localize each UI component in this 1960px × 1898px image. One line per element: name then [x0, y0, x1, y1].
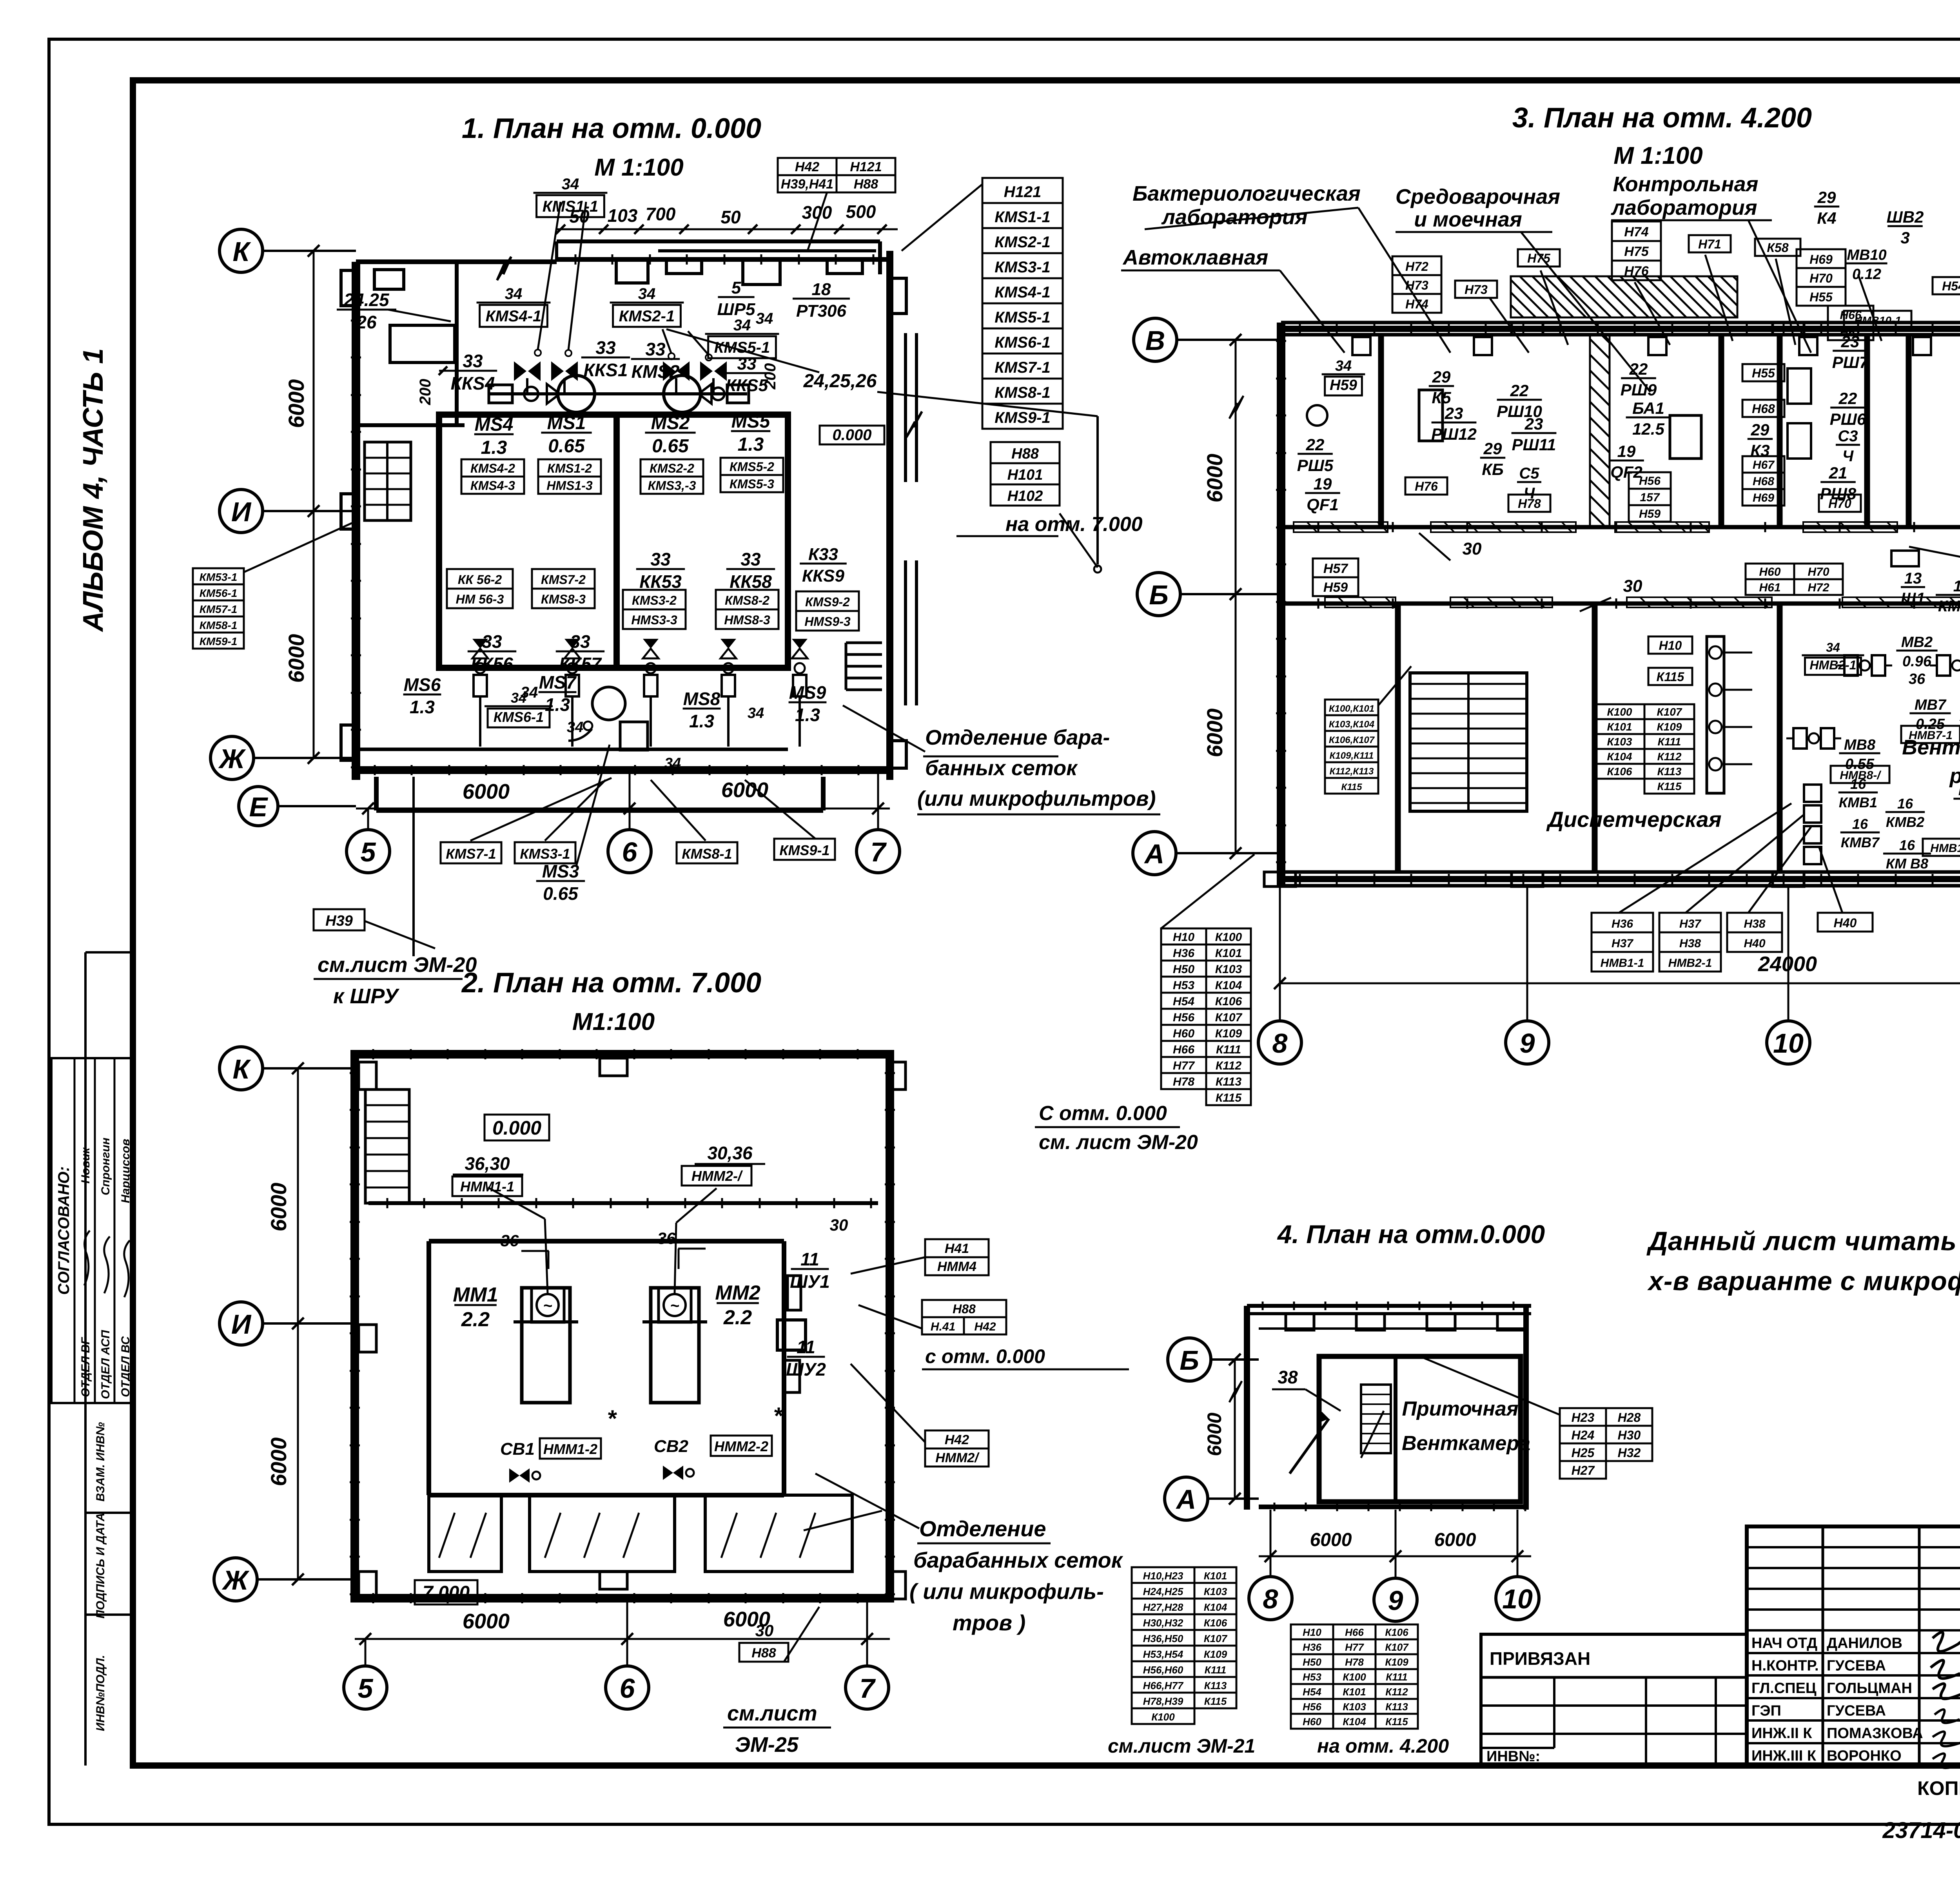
- svg-text:0.12: 0.12: [1852, 266, 1881, 283]
- svg-text:НМ 56-3: НМ 56-3: [456, 592, 504, 606]
- svg-text:К111: К111: [1658, 736, 1681, 748]
- plan1 break mark top: [497, 257, 511, 280]
- svg-text:Н77: Н77: [1173, 1059, 1195, 1072]
- svg-text:МВ10: МВ10: [1847, 247, 1886, 263]
- svg-text:16: 16: [1850, 776, 1866, 792]
- svg-text:Н56: Н56: [1639, 475, 1661, 488]
- svg-text:200: 200: [417, 379, 434, 406]
- svg-text:КМS2-2: КМS2-2: [650, 461, 694, 475]
- plan1 building outer walls: [352, 262, 360, 780]
- svg-text:Новик: Новик: [79, 1147, 92, 1184]
- svg-text:30,36: 30,36: [707, 1143, 753, 1163]
- svg-text:К107: К107: [1657, 706, 1682, 718]
- svg-text:ГЛ.СПЕЦ: ГЛ.СПЕЦ: [1751, 1680, 1817, 1697]
- svg-text:Автоклавная: Автоклавная: [1122, 246, 1269, 269]
- plan4 top wall strip: [1247, 1304, 1531, 1308]
- svg-text:ИНЖ.II К: ИНЖ.II К: [1751, 1725, 1812, 1742]
- svg-text:К115: К115: [1204, 1695, 1227, 1707]
- svg-text:К104: К104: [1607, 750, 1632, 763]
- left stamp column line: [84, 952, 87, 1766]
- plan1 label ShR5: [717, 278, 755, 319]
- svg-text:К109,К111: К109,К111: [1330, 750, 1374, 761]
- svg-text:Н30,Н32: Н30,Н32: [1143, 1617, 1183, 1629]
- svg-text:НММ2/: НММ2/: [935, 1450, 980, 1465]
- svg-text:ИНЖ.III К: ИНЖ.III К: [1751, 1748, 1817, 1764]
- svg-text:2.2: 2.2: [461, 1308, 490, 1331]
- plan2 axis 7: [846, 1666, 889, 1709]
- svg-text:см.лист ЭМ-21: см.лист ЭМ-21: [1108, 1735, 1255, 1757]
- svg-text:6000: 6000: [1202, 454, 1227, 503]
- svg-text:10: 10: [1502, 1584, 1533, 1614]
- plan1 label 33/KMS2: [631, 339, 680, 382]
- svg-text:Данный лист читать совместно с: Данный лист читать совместно с листами Э…: [1646, 1226, 1960, 1256]
- svg-text:34: 34: [638, 285, 656, 303]
- svg-text:Н37: Н37: [1679, 917, 1701, 930]
- svg-text:НММ4: НММ4: [937, 1259, 976, 1274]
- svg-text:29: 29: [1751, 421, 1769, 439]
- svg-text:22: 22: [1629, 360, 1648, 378]
- plan3 room3 labels: [1621, 360, 1657, 399]
- title block frame: [1747, 1526, 1960, 1766]
- svg-text:30: 30: [830, 1216, 848, 1234]
- svg-text:КМS4-3: КМS4-3: [470, 479, 515, 493]
- svg-text:0.000: 0.000: [492, 1117, 541, 1139]
- svg-text:Н66: Н66: [1173, 1043, 1194, 1056]
- svg-text:Н88: Н88: [1011, 446, 1039, 462]
- plan1 label KMS4-1: [477, 285, 551, 327]
- svg-text:34: 34: [664, 755, 681, 772]
- svg-text:К115: К115: [1657, 670, 1685, 684]
- svg-text:Н40: Н40: [1834, 916, 1857, 930]
- svg-text:КМS9-1: КМS9-1: [779, 842, 829, 858]
- svg-text:К107: К107: [1204, 1633, 1228, 1644]
- svg-text:29: 29: [1483, 439, 1502, 458]
- svg-text:9: 9: [1388, 1585, 1403, 1616]
- svg-text:КМS8-2: КМS8-2: [725, 593, 769, 607]
- plan2 level 0.000: [485, 1115, 549, 1140]
- svg-text:КМS1-1: КМS1-1: [995, 208, 1050, 226]
- svg-text:КМВ1: КМВ1: [1839, 794, 1877, 810]
- plan1 note N39: [314, 909, 365, 930]
- svg-text:Спронгин: Спронгин: [99, 1138, 112, 1195]
- plan1 axis 7: [857, 830, 900, 873]
- plan1 machine labels MS4 MS1 MS2 MS5: [474, 414, 514, 458]
- svg-text:НММ2-2: НММ2-2: [714, 1438, 768, 1454]
- svg-text:Н36,Н50: Н36,Н50: [1143, 1633, 1183, 1644]
- plan3 axis 8: [1258, 1021, 1301, 1064]
- svg-text:1.3: 1.3: [481, 437, 507, 458]
- svg-text:6000: 6000: [266, 1438, 291, 1486]
- svg-text:Н39: Н39: [325, 913, 353, 929]
- svg-text:КМS2-1: КМS2-1: [995, 234, 1050, 251]
- plan1 label 33/KKS5: [723, 354, 770, 395]
- svg-text:Н27,Н28: Н27,Н28: [1143, 1601, 1183, 1613]
- plan1 top label table N42/N121: [778, 158, 837, 192]
- svg-text:К112: К112: [1216, 1059, 1242, 1072]
- svg-text:Н56: Н56: [1173, 1011, 1194, 1024]
- svg-text:К103,К104: К103,К104: [1329, 719, 1374, 730]
- svg-text:33: 33: [740, 549, 761, 569]
- svg-text:26: 26: [356, 312, 377, 332]
- svg-text:0.000: 0.000: [832, 426, 871, 444]
- plan1 right label stack: [982, 178, 1063, 429]
- svg-text:МВ1: МВ1: [1958, 782, 1960, 799]
- svg-text:Н57: Н57: [1323, 561, 1348, 576]
- svg-text:2.2: 2.2: [723, 1306, 752, 1329]
- svg-text:200: 200: [762, 363, 779, 390]
- svg-text:К109: К109: [1385, 1656, 1408, 1668]
- svg-text:Н70: Н70: [1809, 271, 1833, 285]
- svg-text:Н77: Н77: [1345, 1641, 1364, 1653]
- svg-text:с отм. 0.000: с отм. 0.000: [925, 1345, 1045, 1367]
- svg-text:Н24,Н25: Н24,Н25: [1143, 1586, 1183, 1597]
- svg-text:23: 23: [1524, 415, 1543, 433]
- plan2 right wall devices: [788, 1276, 801, 1310]
- svg-text:Н55: Н55: [1752, 366, 1775, 380]
- svg-text:Н53: Н53: [1173, 979, 1194, 992]
- svg-text:МS1: МS1: [547, 413, 586, 433]
- svg-text:Н102: Н102: [1007, 488, 1043, 504]
- svg-text:36: 36: [657, 1229, 676, 1247]
- svg-text:0.65: 0.65: [652, 436, 689, 457]
- svg-text:7: 7: [860, 1673, 876, 1704]
- plan3 left dim: [1235, 340, 1237, 853]
- svg-text:КМ59-1: КМ59-1: [200, 635, 238, 647]
- plan2 label N88 N41 N42: [922, 1300, 1006, 1317]
- svg-text:Отделение: Отделение: [919, 1516, 1046, 1541]
- table T2 (below plan2): [1132, 1567, 1194, 1583]
- svg-text:КБ: КБ: [1482, 460, 1504, 479]
- svg-text:ВЗАМ. ИНВ№: ВЗАМ. ИНВ№: [94, 1422, 107, 1502]
- svg-text:КМВ-9: КМВ-9: [1938, 598, 1960, 615]
- svg-text:( или микрофиль-: ( или микрофиль-: [909, 1579, 1104, 1604]
- svg-text:КК58: КК58: [730, 571, 772, 592]
- svg-text:ММ1: ММ1: [453, 1283, 498, 1306]
- svg-text:ИНВ№ПОДЛ.: ИНВ№ПОДЛ.: [94, 1655, 107, 1731]
- plan4 axis 9: [1374, 1578, 1417, 1621]
- svg-text:Н70: Н70: [1828, 497, 1851, 511]
- svg-text:Н54: Н54: [1303, 1686, 1321, 1698]
- plan3 lower band partitions: [1395, 604, 1401, 872]
- svg-text:Н10: Н10: [1173, 931, 1194, 944]
- plan4 break mark: [1229, 1381, 1242, 1402]
- svg-text:Н25: Н25: [1572, 1446, 1595, 1460]
- svg-text:24,25,26: 24,25,26: [803, 371, 877, 392]
- svg-text:Н24: Н24: [1572, 1428, 1595, 1442]
- svg-text:КМS5-2: КМS5-2: [730, 460, 774, 474]
- plan2 pilasters: [359, 1062, 376, 1089]
- svg-text:К109: К109: [1657, 721, 1682, 733]
- svg-text:Н72: Н72: [1405, 259, 1428, 274]
- plan1 axis Ж: [211, 736, 254, 780]
- svg-text:Н73: Н73: [1465, 283, 1488, 297]
- svg-text:К111: К111: [1216, 1043, 1241, 1056]
- svg-text:КМ В8: КМ В8: [1886, 856, 1928, 872]
- plan2 label ShU1: [790, 1249, 830, 1292]
- svg-text:КМS4-1: КМS4-1: [486, 308, 541, 325]
- svg-text:Н10: Н10: [1659, 638, 1682, 653]
- svg-text:21: 21: [1829, 464, 1847, 482]
- svg-text:ВОРОНКО: ВОРОНКО: [1827, 1748, 1902, 1764]
- plan1 level mark 24.25/26: [337, 290, 396, 332]
- svg-text:~: ~: [543, 1297, 552, 1314]
- plan2 label MM2: [715, 1282, 760, 1329]
- svg-text:М 1:100: М 1:100: [1613, 142, 1702, 169]
- svg-text:НМВ10-1: НМВ10-1: [1854, 314, 1901, 326]
- svg-text:МS5: МS5: [731, 411, 771, 432]
- svg-text:Н76: Н76: [1415, 479, 1438, 493]
- svg-text:ЭМ-25: ЭМ-25: [735, 1733, 799, 1757]
- plan4 axis A: [1165, 1477, 1208, 1520]
- svg-text:Н42: Н42: [795, 160, 819, 174]
- svg-text:КМS5-1: КМS5-1: [995, 309, 1050, 326]
- svg-text:КМS1-1: КМS1-1: [543, 198, 598, 215]
- svg-text:1.3: 1.3: [738, 434, 764, 455]
- svg-text:С5: С5: [1519, 465, 1539, 482]
- svg-text:И: И: [231, 1309, 252, 1340]
- plan4 axis B: [1168, 1338, 1211, 1381]
- svg-text:РТ306: РТ306: [796, 301, 846, 321]
- svg-text:Н56,Н60: Н56,Н60: [1143, 1664, 1183, 1676]
- svg-text:ККS1: ККS1: [584, 360, 628, 380]
- svg-text:КМВ2: КМВ2: [1886, 814, 1924, 830]
- svg-text:Н50: Н50: [1173, 963, 1194, 976]
- svg-text:Н68: Н68: [1752, 402, 1775, 416]
- svg-text:Н.41: Н.41: [931, 1320, 955, 1333]
- svg-text:Н59: Н59: [1330, 377, 1357, 393]
- plan3 axis A: [1133, 832, 1176, 875]
- svg-text:Н60: Н60: [1759, 566, 1780, 578]
- svg-text:Н69: Н69: [1809, 252, 1833, 266]
- svg-text:РШ7: РШ7: [1832, 353, 1869, 372]
- svg-text:Н75: Н75: [1527, 251, 1551, 265]
- svg-text:К109: К109: [1215, 1027, 1242, 1040]
- svg-text:РШ9: РШ9: [1621, 381, 1657, 399]
- svg-text:лаборатория: лаборатория: [1610, 196, 1757, 219]
- plan2 inner hall walls: [368, 1201, 878, 1205]
- svg-text:К101: К101: [1204, 1570, 1227, 1582]
- svg-text:Н37: Н37: [1612, 937, 1633, 950]
- svg-text:Венткаме-: Венткаме-: [1902, 736, 1960, 759]
- svg-text:19: 19: [1617, 442, 1636, 460]
- svg-text:ОТДЕЛ ВГ: ОТДЕЛ ВГ: [79, 1337, 92, 1397]
- svg-text:К103: К103: [1343, 1701, 1366, 1713]
- svg-text:33: 33: [737, 354, 757, 373]
- svg-text:МВ8: МВ8: [1844, 737, 1876, 753]
- svg-text:~: ~: [670, 1297, 679, 1314]
- svg-text:КМS2: КМS2: [632, 361, 680, 382]
- svg-text:Н78,Н39: Н78,Н39: [1143, 1695, 1183, 1707]
- svg-text:КМS8-1: КМS8-1: [682, 846, 732, 862]
- svg-text:х-в варианте с микрофильтрами: х-в варианте с микрофильтрами исключить.: [1647, 1266, 1960, 1296]
- svg-text:КМS7-2: КМS7-2: [541, 573, 586, 587]
- svg-text:Ж: Ж: [222, 1565, 250, 1595]
- svg-text:ПРИВЯЗАН: ПРИВЯЗАН: [1490, 1648, 1590, 1669]
- svg-text:36,30: 36,30: [465, 1153, 510, 1174]
- svg-text:Контрольная: Контрольная: [1613, 172, 1759, 196]
- plan3 stair outside top: [1511, 276, 1737, 317]
- svg-text:34: 34: [562, 176, 579, 193]
- svg-text:К100,К101: К100,К101: [1329, 703, 1374, 714]
- svg-text:НМS8-3: НМS8-3: [724, 613, 770, 627]
- svg-text:0.96: 0.96: [1902, 653, 1932, 670]
- svg-text:ММ2: ММ2: [715, 1282, 760, 1304]
- svg-text:ШУ2: ШУ2: [786, 1359, 826, 1380]
- title block signature rows: [1747, 1652, 1960, 1654]
- table T3 (below plan4): [1291, 1624, 1333, 1639]
- svg-text:РШ5: РШ5: [1297, 456, 1334, 475]
- svg-text:Н23: Н23: [1572, 1410, 1595, 1425]
- svg-text:34: 34: [505, 285, 523, 303]
- svg-text:ГЭП: ГЭП: [1751, 1703, 1781, 1719]
- plan3 axis 10: [1767, 1021, 1810, 1064]
- svg-text:К33: К33: [808, 545, 838, 564]
- svg-text:Н56: Н56: [1303, 1701, 1321, 1713]
- svg-text:БА1: БА1: [1632, 399, 1664, 417]
- svg-text:К113: К113: [1657, 765, 1682, 778]
- plan3 wall tick marks: [1299, 324, 1301, 334]
- plan1 pump 2: [664, 375, 701, 412]
- svg-text:5: 5: [358, 1673, 374, 1704]
- svg-text:157: 157: [1640, 491, 1660, 504]
- svg-text:Н121: Н121: [1004, 183, 1042, 201]
- plan4 axis 10: [1496, 1577, 1539, 1620]
- svg-text:НМS1-3: НМS1-3: [546, 479, 593, 493]
- svg-text:КМS8-3: КМS8-3: [541, 592, 586, 606]
- svg-text:НМS3-3: НМS3-3: [631, 613, 677, 627]
- svg-text:Н75: Н75: [1624, 244, 1649, 259]
- svg-text:33: 33: [650, 549, 671, 569]
- plan2 stair left: [365, 1089, 409, 1203]
- svg-text:Н40: Н40: [1744, 937, 1765, 950]
- svg-text:К106: К106: [1204, 1617, 1227, 1629]
- svg-text:Н69: Н69: [1753, 491, 1774, 504]
- svg-text:5: 5: [731, 278, 741, 297]
- svg-text:ГУСЕВА: ГУСЕВА: [1827, 1703, 1886, 1719]
- svg-text:Б: Б: [1149, 580, 1169, 610]
- plan1 break right wall: [906, 412, 922, 437]
- svg-text:К106: К106: [1385, 1626, 1408, 1638]
- svg-text:НММ2-/: НММ2-/: [691, 1168, 743, 1184]
- svg-text:К58: К58: [1767, 241, 1788, 255]
- svg-text:С отм. 0.000: С отм. 0.000: [1039, 1102, 1167, 1125]
- plan1 pump main pipe: [489, 392, 747, 395]
- svg-text:16: 16: [1897, 796, 1913, 812]
- svg-text:34: 34: [756, 310, 773, 327]
- svg-text:см. лист ЭМ-20: см. лист ЭМ-20: [1039, 1131, 1198, 1154]
- svg-text:КМS6-1: КМS6-1: [494, 709, 544, 725]
- svg-text:Н59: Н59: [1639, 508, 1661, 520]
- svg-text:Н50: Н50: [1303, 1656, 1321, 1668]
- plan3 kmv squares: [1804, 785, 1821, 802]
- svg-text:22: 22: [1306, 435, 1325, 454]
- svg-text:КМ57-1: КМ57-1: [200, 603, 238, 615]
- plan3 room1 labels: [1322, 358, 1365, 395]
- plan2 machine MM1: [522, 1288, 570, 1403]
- svg-text:34: 34: [1826, 640, 1840, 654]
- lower stamp boxes: [85, 1402, 133, 1404]
- svg-text:МS8: МS8: [683, 689, 720, 709]
- plan3 room4 labels: [1742, 364, 1784, 381]
- svg-text:К113: К113: [1216, 1075, 1242, 1088]
- svg-text:6000: 6000: [721, 778, 768, 802]
- svg-text:КМS7-1: КМS7-1: [446, 846, 496, 862]
- svg-text:Н74: Н74: [1405, 297, 1428, 311]
- svg-text:Н36: Н36: [1612, 917, 1633, 930]
- svg-text:КМS6-1: КМS6-1: [995, 334, 1050, 351]
- svg-text:К111: К111: [1205, 1664, 1227, 1676]
- plan2 axis 5: [344, 1666, 387, 1709]
- signatures: [84, 1231, 90, 1285]
- svg-text:К112: К112: [1657, 750, 1682, 763]
- svg-text:Н38: Н38: [1744, 917, 1765, 930]
- svg-text:барабанных сеток: барабанных сеток: [913, 1548, 1123, 1572]
- plan1 bottom dim line: [356, 808, 890, 810]
- svg-text:А: А: [1176, 1484, 1196, 1515]
- svg-text:Н71: Н71: [1698, 237, 1721, 251]
- svg-text:19: 19: [1314, 475, 1332, 493]
- svg-text:0.65: 0.65: [548, 436, 585, 457]
- plan2 bottom dim: [355, 1638, 890, 1640]
- svg-text:*: *: [607, 1405, 617, 1432]
- svg-text:Н61: Н61: [1759, 581, 1780, 594]
- svg-text:Н70: Н70: [1808, 566, 1829, 578]
- svg-text:Н76: Н76: [1624, 264, 1649, 279]
- svg-text:Н32: Н32: [1618, 1446, 1641, 1460]
- plan2 wall tick marks: [372, 1049, 374, 1059]
- plan3 ventkamera fans: [1802, 640, 1864, 675]
- svg-text:К113: К113: [1385, 1701, 1408, 1713]
- plan2 axis K: [220, 1047, 263, 1090]
- svg-text:М 1:100: М 1:100: [594, 154, 683, 181]
- svg-text:Средоварочная: Средоварочная: [1396, 185, 1560, 208]
- svg-text:Отделение бара-: Отделение бара-: [925, 726, 1110, 749]
- title block verticals left part: [1822, 1526, 1824, 1766]
- svg-text:К: К: [232, 1054, 251, 1084]
- svg-text:КМS3-1: КМS3-1: [520, 846, 570, 862]
- plan4 inner room: [1319, 1356, 1521, 1502]
- svg-text:КМS4-1: КМS4-1: [995, 284, 1050, 301]
- svg-text:МS3: МS3: [542, 861, 579, 881]
- svg-text:К100: К100: [1607, 706, 1632, 718]
- svg-text:3: 3: [1900, 228, 1909, 247]
- plan1 axis И: [220, 489, 263, 533]
- svg-text:Н27: Н27: [1572, 1463, 1595, 1477]
- svg-text:РШ6: РШ6: [1830, 410, 1866, 428]
- svg-text:29: 29: [1817, 188, 1836, 207]
- plan3 below-building labels: [1592, 913, 1653, 972]
- plan2 bottom bays: [429, 1495, 501, 1572]
- svg-text:КМS5-1: КМS5-1: [714, 339, 770, 356]
- svg-text:и моечная: и моечная: [1414, 208, 1522, 231]
- svg-text:Н66: Н66: [1345, 1626, 1364, 1638]
- svg-text:6000: 6000: [463, 1610, 510, 1633]
- svg-text:10: 10: [1773, 1028, 1804, 1059]
- svg-text:КМS9-2: КМS9-2: [805, 595, 850, 609]
- svg-text:13: 13: [1904, 570, 1922, 587]
- plan1 intake valves (filled): [514, 361, 526, 381]
- svg-text:К115: К115: [1657, 780, 1682, 792]
- svg-text:34: 34: [748, 705, 764, 721]
- svg-text:КОПИРОВАЛ: КОРШУНОВА: КОПИРОВАЛ: КОРШУНОВА: [1917, 1777, 1960, 1799]
- svg-text:К103: К103: [1204, 1586, 1227, 1597]
- svg-text:38: 38: [1278, 1367, 1298, 1387]
- plan4 bottom dim: [1259, 1555, 1531, 1557]
- plan2 label ShU2: [786, 1337, 826, 1380]
- svg-text:тров ): тров ): [953, 1610, 1025, 1635]
- svg-text:Н54: Н54: [1942, 279, 1960, 293]
- svg-text:банных сеток: банных сеток: [925, 756, 1078, 780]
